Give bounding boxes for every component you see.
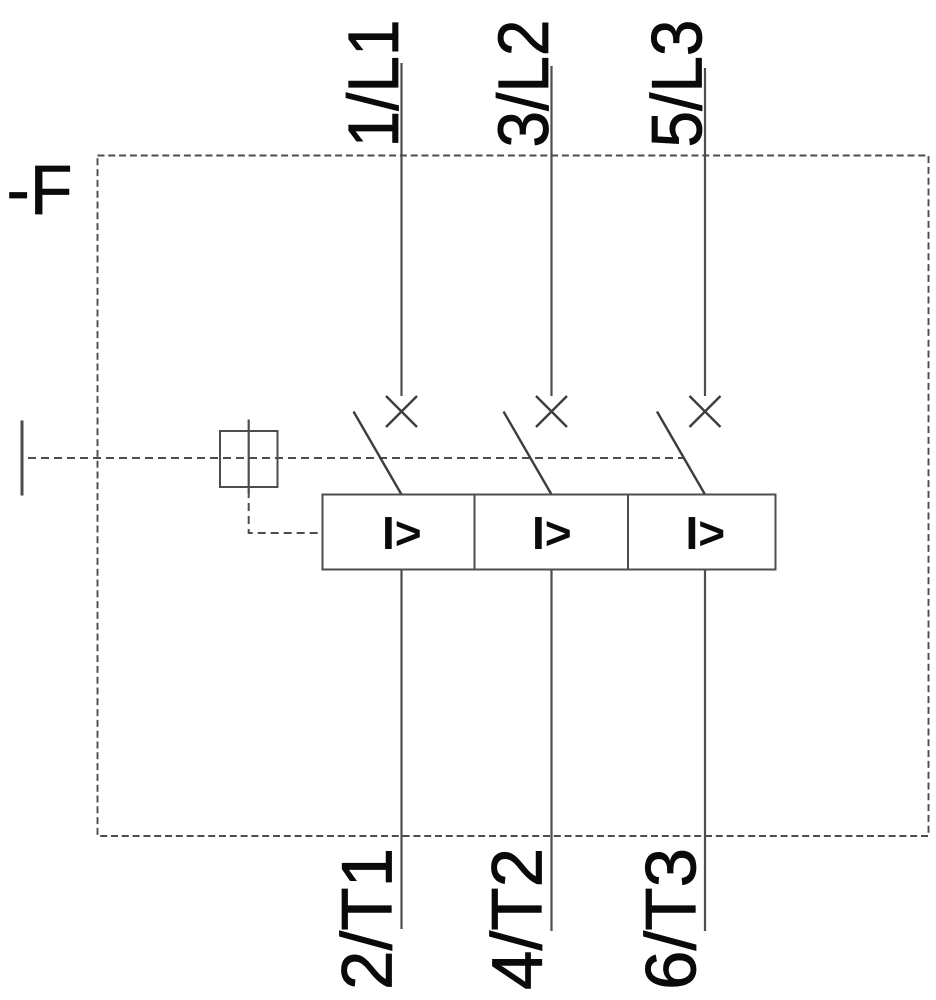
overload box divider 2 [627, 495, 629, 570]
switch blade L2 [504, 412, 552, 495]
svg-text:4/T2: 4/T2 [479, 848, 558, 990]
actuator bar (left handle) [21, 421, 24, 496]
svg-text:2/T1: 2/T1 [329, 848, 408, 990]
breaker contact X L2 [536, 396, 567, 427]
wire L3 top [704, 68, 706, 396]
overload box divider 1 [474, 495, 476, 570]
svg-text:-F: -F [7, 151, 73, 229]
overload relay box [323, 495, 776, 570]
breaker contact X L3 [690, 396, 721, 427]
svg-text:I>: I> [686, 507, 726, 559]
dashed enclosure border [98, 156, 929, 837]
svg-text:I>: I> [532, 507, 572, 559]
wire T1 bottom [400, 570, 402, 930]
svg-text:I>: I> [382, 507, 422, 559]
switch blade L3 [657, 412, 705, 495]
svg-text:6/T3: 6/T3 [633, 848, 712, 990]
switch blade L1 [354, 412, 402, 495]
wire L2 top [550, 66, 552, 396]
mechanical link dashed (horizontal) [22, 457, 684, 459]
wire L1 top [400, 63, 402, 396]
breaker contact X L1 [386, 396, 417, 427]
wire T2 bottom [550, 570, 552, 932]
wire T3 bottom [704, 570, 706, 932]
mechanical link dashed (square to trip unit) [249, 490, 323, 533]
manual operator square [220, 431, 278, 487]
operator stem (vertical line through square) [248, 420, 250, 494]
